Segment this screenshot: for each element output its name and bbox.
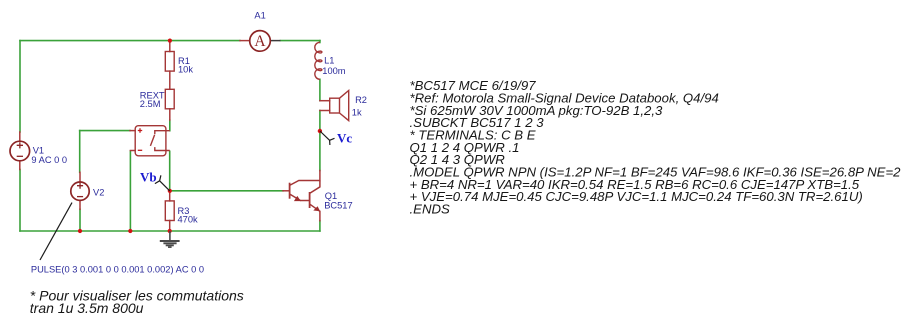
svg-text:Vb: Vb: [140, 170, 157, 185]
svg-text:1k: 1k: [352, 107, 362, 117]
svg-text:Vc: Vc: [337, 130, 352, 145]
svg-text:100m: 100m: [322, 66, 346, 76]
svg-text:BC517: BC517: [324, 201, 352, 211]
svg-text:470k: 470k: [178, 215, 199, 225]
svg-text:L1: L1: [324, 56, 334, 66]
svg-text:V2: V2: [93, 187, 104, 197]
svg-text:9 AC 0 0: 9 AC 0 0: [31, 155, 67, 165]
svg-text:R2: R2: [355, 95, 367, 105]
svg-text:PULSE(0 3 0.001 0 0 0.001 0.00: PULSE(0 3 0.001 0 0 0.001 0.002) AC 0 0: [31, 265, 204, 275]
svg-text:V1: V1: [33, 146, 44, 156]
svg-text:tran 1u 3.5m 800u: tran 1u 3.5m 800u: [30, 300, 144, 316]
svg-text:+ VJE=0.74 MJE=0.45 CJC=9.48P: + VJE=0.74 MJE=0.45 CJC=9.48P VJC=1.1 MJ…: [410, 189, 863, 204]
svg-text:2.5M: 2.5M: [140, 99, 161, 109]
svg-text:A1: A1: [254, 10, 265, 20]
svg-text:A: A: [254, 33, 266, 50]
svg-text:10k: 10k: [178, 64, 193, 74]
svg-text:.ENDS: .ENDS: [410, 202, 451, 217]
